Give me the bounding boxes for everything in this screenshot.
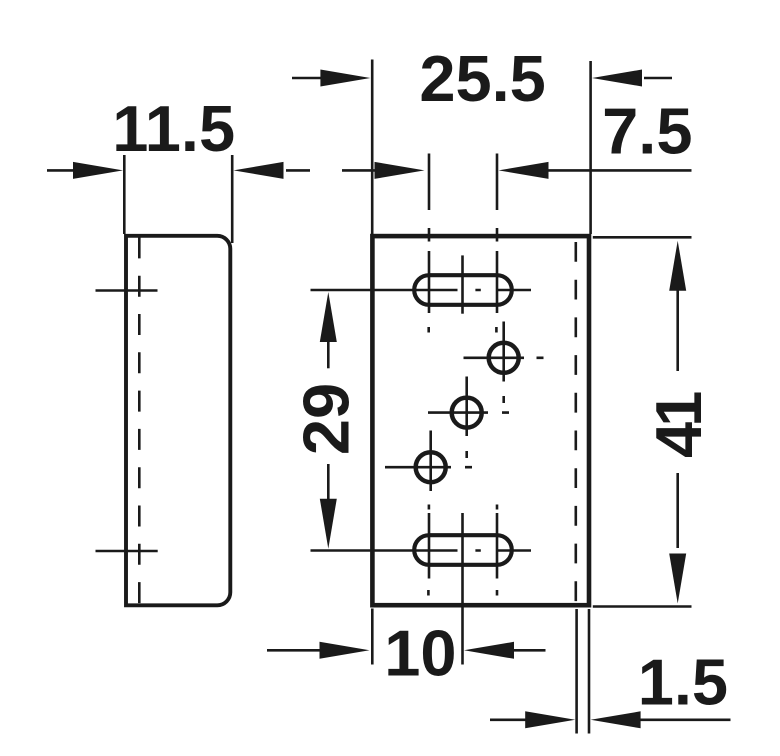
dim 41 extension bottom — [593, 605, 692, 608]
slot top centerline horizontal — [311, 289, 532, 292]
arrow 7.5 right — [499, 162, 549, 179]
hole C3 — [416, 452, 446, 482]
arrow 1.5 right — [591, 711, 641, 728]
arrow 11.5 right — [234, 162, 284, 179]
arrow 7.5 left — [375, 162, 425, 179]
plate front view outline — [372, 236, 589, 605]
dim 25.5 leader left — [292, 77, 321, 80]
arrow 25.5 right — [592, 70, 642, 87]
hole C1 centerlines — [464, 322, 544, 404]
dim 1.5 extension left — [575, 609, 578, 734]
svg-text:11.5: 11.5 — [112, 92, 235, 165]
slot bottom arc centerline right — [496, 505, 499, 596]
dim 1.5 extension right — [588, 609, 591, 734]
svg-text:7.5: 7.5 — [602, 95, 692, 168]
dim 29 line lower — [327, 464, 330, 500]
dim 11.5 leader right — [286, 169, 310, 172]
svg-text:25.5: 25.5 — [419, 42, 546, 115]
dim 41 line lower — [676, 473, 679, 548]
arrow 29 down — [320, 499, 337, 549]
dim 25.5 extension right — [589, 61, 592, 234]
arrow 41 up — [669, 241, 686, 291]
dim 7.5 leader left — [342, 169, 376, 172]
slot top (obround hole) — [414, 275, 512, 305]
side view center mark lower — [96, 550, 158, 553]
dim 41 line upper — [676, 290, 679, 371]
dim 25.5 extension left — [371, 60, 374, 235]
hole C2 — [452, 398, 482, 428]
slot top mid centerline — [461, 255, 464, 313]
arrow 1.5 left — [525, 711, 575, 728]
dim 11.5 extension right — [231, 155, 234, 243]
svg-text:41: 41 — [642, 392, 715, 458]
slot bottom (obround hole) — [414, 535, 512, 565]
side view center mark upper — [96, 289, 158, 292]
side view body — [126, 236, 230, 608]
arrow 25.5 left — [320, 70, 370, 87]
hole C2 centerlines — [428, 377, 509, 459]
arrow 29 up — [320, 292, 337, 342]
slot bottom mid centerline extends to 10-dim — [461, 513, 464, 665]
dim 10 extension left — [371, 609, 374, 665]
svg-text:10: 10 — [384, 616, 456, 689]
dim 1.5 leader left — [490, 718, 527, 721]
dim 11.5 leader left — [47, 169, 75, 172]
arrow 10 right — [464, 642, 514, 659]
arrow 10 left — [320, 642, 370, 659]
arrow 11.5 left — [73, 162, 123, 179]
dim 10 leader left — [267, 649, 321, 652]
dim 41 extension top — [593, 236, 692, 239]
hole C1 — [489, 343, 519, 373]
svg-text:29: 29 — [290, 383, 363, 455]
dim 10 leader right — [514, 649, 546, 652]
dim 25.5 leader right — [644, 77, 672, 80]
dim 29 line upper — [327, 341, 330, 368]
arrow 41 down — [669, 554, 686, 604]
svg-text:1.5: 1.5 — [638, 645, 728, 718]
slot bottom centerline horizontal — [311, 549, 532, 552]
slot top arc centerline right — [495, 154, 498, 333]
dim 7.5 line right — [548, 169, 692, 172]
side view hidden edge dashed line — [138, 237, 141, 604]
hole C3 centerlines — [385, 431, 472, 492]
dim 11.5 extension left — [123, 155, 126, 234]
dim 1.5 leader right — [640, 718, 731, 721]
slot bottom arc centerline left — [427, 505, 430, 596]
plate bend dashed line — [574, 242, 577, 603]
slot top arc centerline left — [427, 154, 430, 333]
